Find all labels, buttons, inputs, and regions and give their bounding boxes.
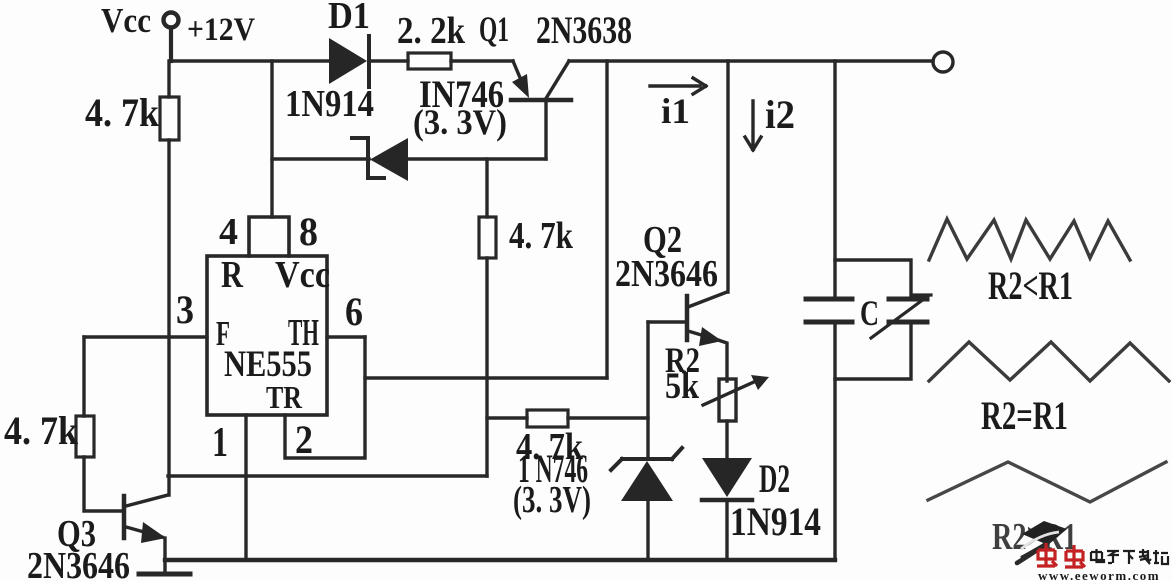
ground (139, 572, 190, 577)
wire TH node horizontal (365, 376, 607, 379)
svg-text:Q1: Q1 (479, 9, 509, 49)
resistor R1 4.7k body (160, 97, 179, 140)
wire capacitor bottom to rail (833, 322, 836, 560)
wire R2 to D2 (725, 421, 728, 458)
svg-text:3: 3 (176, 287, 194, 332)
wire rail down to capacitor (833, 61, 836, 299)
watermark cap (1017, 521, 1067, 563)
node output terminal (933, 52, 953, 72)
wire 4.7k to Q3 base (84, 457, 122, 511)
wire 4.7k middle down (485, 258, 488, 476)
wire discharge horizontal (168, 474, 487, 477)
wire zener bottom to rail (646, 501, 649, 560)
trimmer capacitor arrow (871, 295, 931, 338)
svg-text:1N914: 1N914 (730, 499, 821, 544)
wire bottom rail (165, 558, 835, 562)
zener diode 1N746 top (352, 138, 384, 178)
wire pin3 F lead (84, 335, 207, 338)
wire Q2 emitter to R2 (718, 340, 727, 381)
svg-text:4. 7k: 4. 7k (509, 215, 574, 257)
resistor 2.2k body (408, 53, 451, 69)
wire pins 4 8 box (249, 217, 289, 256)
capacitor C plates (806, 299, 852, 322)
transistor Q3 base bar (122, 496, 127, 538)
resistor 4.7k middle body (479, 217, 496, 258)
ic NE555 body (207, 256, 327, 415)
wire top rail left (170, 59, 330, 62)
wire 4.7k to zener node (568, 416, 648, 419)
wire pin1 lead (244, 415, 247, 558)
watermark chongchong red characters (1037, 543, 1085, 567)
wire Q1 base lead (544, 101, 547, 159)
svg-text:2N3646: 2N3646 (27, 545, 130, 581)
wire zener to Q1 base (408, 157, 546, 160)
wire 2.2k to Q1 emitter (451, 59, 513, 62)
wire 4.7k horizontal left lead (487, 416, 527, 419)
svg-text:i1: i1 (661, 91, 690, 131)
potentiometer R2 5k body (719, 379, 736, 421)
wire zener node vertical (646, 322, 649, 459)
svg-text:D1: D1 (328, 0, 370, 37)
svg-text:R2<R1: R2<R1 (988, 263, 1073, 308)
wire zener row down to 4.7k (485, 159, 488, 217)
svg-text:8: 8 (299, 209, 318, 254)
svg-text:C: C (860, 293, 879, 333)
transistor Q2 collector (688, 292, 727, 307)
wire Vcc stem (169, 28, 173, 61)
svg-text:2N3638: 2N3638 (536, 9, 632, 52)
svg-text:2: 2 (295, 417, 313, 462)
wire Q2 base lead (648, 320, 687, 323)
watermark chinese site name (1091, 549, 1168, 564)
transistor Q2 base bar (685, 296, 690, 340)
waveform R2 greater than R1 (928, 462, 1166, 502)
wire junction down to zener row (270, 61, 273, 217)
wire trimmer top branch (835, 260, 911, 299)
wire Vcc down to R1 (167, 61, 170, 97)
diode D1 (329, 38, 367, 84)
resistor 4.7k horizontal body (527, 410, 568, 427)
svg-text:www.eeworm.com: www.eeworm.com (1038, 568, 1160, 581)
wire D1 cathode to resistor 2.2k (369, 59, 408, 62)
transistor Q3 collector (126, 495, 168, 506)
wire Q2 collector up to rail i2 (726, 61, 729, 292)
node Vcc terminal (164, 13, 179, 28)
svg-text:5k: 5k (665, 366, 699, 407)
svg-text:+12V: +12V (187, 12, 255, 48)
wire top rail right (569, 59, 933, 62)
resistor 4.7k lower-left body (76, 416, 94, 457)
svg-text:i2: i2 (765, 92, 795, 137)
svg-text:TR: TR (266, 379, 303, 415)
wire pin6 TH lead (327, 335, 365, 338)
svg-text:6: 6 (345, 289, 363, 334)
diode D2 (702, 458, 752, 497)
transistor Q3 emitter (126, 527, 162, 537)
wire TH loop (285, 337, 365, 458)
trimmer capacitor plates (889, 299, 927, 322)
svg-text:R: R (221, 254, 243, 296)
transistor Q1 emitter (513, 61, 521, 80)
wire pin3 down to 4.7k (82, 337, 85, 416)
wire zener row left (272, 157, 369, 160)
waveform R2 less than R1 (929, 219, 1130, 260)
svg-text:2N3646: 2N3646 (615, 253, 718, 295)
potentiometer R2 arrow (703, 381, 756, 405)
svg-text:4. 7k: 4. 7k (4, 408, 79, 453)
svg-text:Vcc: Vcc (275, 254, 330, 296)
svg-text:(3. 3V): (3. 3V) (513, 479, 591, 521)
svg-text:1N914: 1N914 (285, 83, 374, 125)
svg-text:2. 2k: 2. 2k (397, 10, 466, 52)
wire rail down to TH node (605, 61, 608, 378)
svg-text:4: 4 (219, 211, 238, 253)
wire R1 down to Q3 collector node (167, 140, 170, 495)
wire Q3 emitter down to ground (163, 538, 166, 572)
arrow i1 (650, 78, 706, 94)
svg-text:Vcc: Vcc (101, 1, 151, 40)
svg-text:1: 1 (212, 420, 228, 466)
arrow i2 (745, 101, 761, 150)
wire trimmer bottom branch (835, 322, 911, 379)
transistor Q1 base bar (511, 98, 571, 103)
svg-text:4. 7k: 4. 7k (85, 90, 160, 135)
wire D2 to bottom rail (725, 500, 728, 560)
svg-text:R2=R1: R2=R1 (981, 393, 1068, 438)
svg-text:D2: D2 (759, 456, 790, 501)
zener diode 1N746 bottom (611, 448, 682, 470)
waveform R2 equal R1 (929, 342, 1169, 381)
transistor Q1 collector (545, 61, 569, 100)
transistor Q2 emitter (688, 331, 718, 340)
svg-text:(3. 3V): (3. 3V) (413, 102, 507, 142)
